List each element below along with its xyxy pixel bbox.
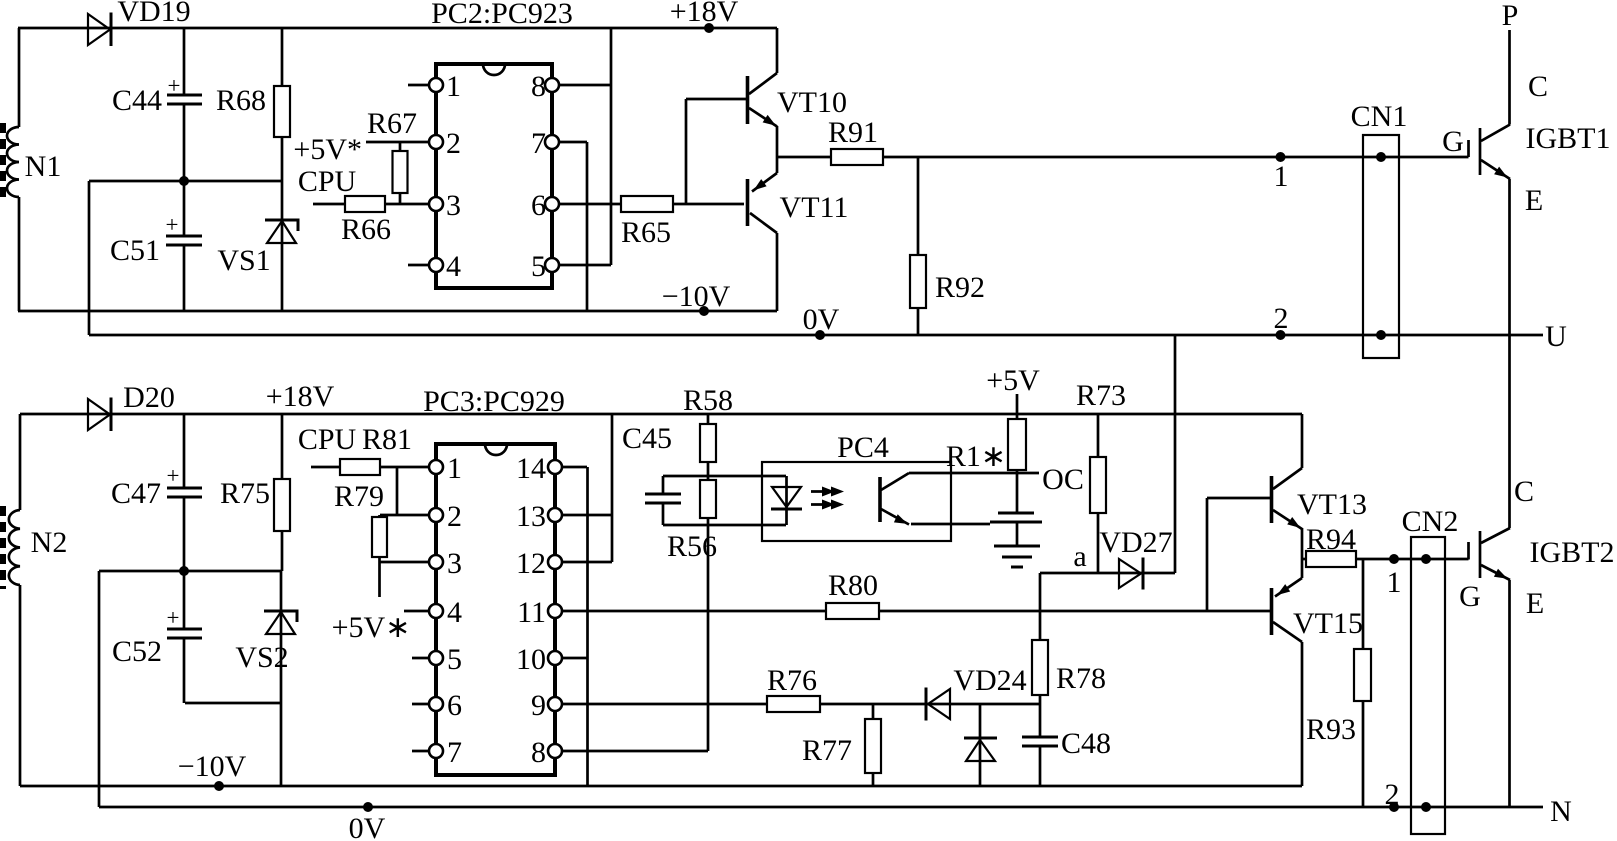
svg-text:13: 13 <box>516 500 546 533</box>
diode VD24 <box>926 664 1040 721</box>
wire VT13 VT15 base tie <box>1207 498 1270 611</box>
zener VS2 <box>235 571 297 786</box>
pin 13 PC3 <box>516 500 612 533</box>
svg-text:2: 2 <box>447 500 462 533</box>
optocoupler PC4 box <box>762 431 951 541</box>
transistor VT15 <box>1272 578 1364 642</box>
resistor R94 <box>1302 523 1469 567</box>
svg-text:−10V: −10V <box>662 280 731 313</box>
resistor R66 <box>298 165 430 246</box>
transformer N2 <box>3 414 67 786</box>
wire node a <box>1040 540 1143 573</box>
wire 0V N rail <box>99 795 1572 841</box>
connector CN1 <box>1351 100 1408 358</box>
pin 8 PC3 <box>531 736 708 769</box>
capacitor C51 <box>110 181 202 311</box>
resistor R76 <box>767 664 926 712</box>
transistor VT10 <box>748 73 848 127</box>
resistor R58 <box>683 384 733 476</box>
svg-text:−10V: −10V <box>178 750 247 783</box>
svg-text:1: 1 <box>1274 160 1289 193</box>
svg-text:R58: R58 <box>683 384 733 417</box>
svg-text:R68: R68 <box>216 84 266 117</box>
svg-text:5: 5 <box>531 250 546 283</box>
svg-text:R93: R93 <box>1306 713 1356 746</box>
svg-text:PC4: PC4 <box>837 431 889 464</box>
IC U-PC3 box PC3:PC929 <box>423 385 565 775</box>
resistor R68 <box>216 28 290 181</box>
node terminal 2 upper <box>1274 302 1289 340</box>
resistor R78 <box>1032 573 1106 737</box>
wire emitter junction <box>776 126 779 173</box>
wire 0V riser lower left <box>98 571 101 807</box>
wire -10V rail lower <box>20 750 1302 791</box>
svg-text:2: 2 <box>1274 302 1289 335</box>
pin 7 PC2 <box>531 127 587 160</box>
svg-text:PC3:PC929: PC3:PC929 <box>423 385 565 418</box>
svg-text:R94: R94 <box>1306 523 1356 556</box>
svg-text:14: 14 <box>516 452 546 485</box>
wire VT15 collector to -10V <box>1301 642 1304 786</box>
pin 3 PC3 <box>429 547 462 580</box>
svg-text:12: 12 <box>516 547 546 580</box>
svg-text:VD27: VD27 <box>1099 526 1172 559</box>
diode VD27 <box>1099 526 1175 590</box>
wire IGBT1 collector P <box>1502 0 1519 125</box>
svg-text:+: + <box>167 463 180 488</box>
svg-text:OC: OC <box>1042 463 1084 496</box>
wire C45/R56 top <box>663 475 786 478</box>
svg-text:R78: R78 <box>1056 662 1106 695</box>
wire emitter junction lower <box>1301 528 1304 578</box>
svg-text:+18V: +18V <box>670 0 739 28</box>
pin 1 PC2 stub <box>408 70 461 103</box>
svg-text:G: G <box>1459 580 1481 613</box>
capacitor C52 <box>112 571 202 703</box>
svg-text:8: 8 <box>531 736 546 769</box>
light arrows <box>811 487 844 510</box>
svg-text:R79: R79 <box>334 480 384 513</box>
pin 11 PC3 <box>517 596 826 629</box>
svg-text:VS2: VS2 <box>235 641 288 674</box>
resistor R56 <box>667 476 717 563</box>
resistor R73 <box>1076 379 1126 573</box>
wire +18V top rail <box>18 27 777 30</box>
svg-text:0V: 0V <box>349 812 386 841</box>
svg-text:CPU: CPU <box>298 165 357 198</box>
svg-text:VT10: VT10 <box>777 86 847 119</box>
wire -10V rail upper <box>18 280 777 316</box>
svg-text:G: G <box>1442 125 1464 158</box>
pin 10 PC3 <box>516 643 588 676</box>
svg-text:VD19: VD19 <box>117 0 190 28</box>
svg-text:R56: R56 <box>667 530 717 563</box>
pin 6 PC3 stub <box>412 689 462 722</box>
pin 12 PC3 <box>516 547 612 580</box>
resistor R1* <box>946 364 1040 513</box>
svg-text:N: N <box>1550 795 1572 828</box>
svg-text:R65: R65 <box>621 216 671 249</box>
svg-text:R76: R76 <box>767 664 817 697</box>
wire 0V rail upper <box>89 303 1567 353</box>
svg-text:R1∗: R1∗ <box>946 440 1006 473</box>
svg-text:D20: D20 <box>123 381 175 414</box>
wire C44/C51 midpoint <box>89 176 282 186</box>
wire Vcc pins 13-12 <box>611 414 614 562</box>
svg-text:C45: C45 <box>622 422 672 455</box>
svg-text:N1: N1 <box>25 150 62 183</box>
svg-text:+: + <box>167 605 180 630</box>
node terminal 1 upper <box>1274 152 1289 193</box>
wire VT13 collector to rail <box>1301 414 1304 468</box>
capacitor PC4 filter <box>990 513 1042 546</box>
svg-text:7: 7 <box>447 736 462 769</box>
svg-text:R73: R73 <box>1076 379 1126 412</box>
transformer N1 <box>3 28 61 311</box>
svg-text:CN2: CN2 <box>1402 505 1459 538</box>
wire R81 to pin2 <box>380 467 430 515</box>
svg-text:R67: R67 <box>367 107 417 140</box>
svg-text:+18V: +18V <box>266 380 335 413</box>
node +18V dot <box>670 0 739 33</box>
wire R56 to pin8 <box>707 525 710 751</box>
pin 6 PC2 <box>531 189 621 222</box>
wire pin7 to -10V <box>586 142 589 311</box>
svg-text:C52: C52 <box>112 635 162 668</box>
wire VT11 collector to -10V <box>776 233 779 311</box>
svg-text:1: 1 <box>446 70 461 103</box>
capacitor C47 <box>111 414 202 571</box>
svg-text:8: 8 <box>531 70 546 103</box>
svg-text:PC2:PC923: PC2:PC923 <box>431 0 573 30</box>
wire VT10 collector to rail <box>776 28 779 73</box>
svg-text:CN1: CN1 <box>1351 100 1408 133</box>
svg-text:+5V∗: +5V∗ <box>332 611 411 644</box>
resistor R81 <box>298 423 430 475</box>
resistor R65 <box>621 196 744 249</box>
svg-text:VT11: VT11 <box>780 191 849 224</box>
transistor IGBT2 <box>1459 475 1614 620</box>
svg-text:R91: R91 <box>828 116 878 149</box>
svg-text:VT13: VT13 <box>1297 488 1367 521</box>
diode freewheel <box>964 704 997 786</box>
diode D20 <box>88 381 175 431</box>
svg-text:C: C <box>1514 475 1534 508</box>
pin 1 PC3 <box>429 452 462 485</box>
pin 14 PC3 <box>516 452 587 485</box>
svg-text:a: a <box>1073 540 1086 573</box>
pin 5 PC2 <box>531 250 611 283</box>
pin 9 PC3 <box>531 689 767 722</box>
transistor VT13 <box>1272 468 1368 529</box>
svg-text:2: 2 <box>446 127 461 160</box>
pin 4 PC3 stub +5V* <box>332 596 462 644</box>
wire C45/R56 bottom <box>663 524 786 527</box>
node terminal 2 lower <box>1385 778 1400 812</box>
svg-text:3: 3 <box>446 189 461 222</box>
svg-text:C48: C48 <box>1061 727 1111 760</box>
svg-text:7: 7 <box>531 127 546 160</box>
svg-text:6: 6 <box>531 189 546 222</box>
connector CN2 <box>1402 505 1459 834</box>
svg-text:3: 3 <box>447 547 462 580</box>
svg-text:IGBT1: IGBT1 <box>1526 122 1611 155</box>
IC U-PC2 box PC2:PC923 <box>431 0 573 288</box>
resistor R79 <box>334 480 430 597</box>
svg-text:C47: C47 <box>111 477 161 510</box>
node terminal 1 lower <box>1387 554 1402 599</box>
wire VD27 to 0V <box>1174 335 1177 573</box>
wire IGBT1 emitter to IGBT2 collector <box>1508 179 1511 528</box>
transistor VT11 <box>748 173 849 233</box>
svg-text:VS1: VS1 <box>217 244 270 277</box>
resistor R80 <box>826 569 1270 619</box>
svg-text:R75: R75 <box>220 477 270 510</box>
svg-text:4: 4 <box>447 596 462 629</box>
svg-text:1: 1 <box>1387 566 1402 599</box>
svg-text:10: 10 <box>516 643 546 676</box>
zener VS1 <box>217 181 298 311</box>
svg-text:5: 5 <box>447 643 462 676</box>
transistor IGBT1 <box>1442 70 1610 217</box>
wire Vcc pins 8-5 <box>610 28 613 265</box>
resistor R67 <box>367 107 417 204</box>
svg-text:+: + <box>166 212 179 237</box>
svg-text:+: + <box>168 73 181 98</box>
svg-text:0V: 0V <box>803 303 840 336</box>
svg-text:CPU: CPU <box>298 423 357 456</box>
pin 3 PC2 <box>429 189 461 222</box>
svg-text:N2: N2 <box>31 526 68 559</box>
svg-text:E: E <box>1525 184 1543 217</box>
svg-text:R66: R66 <box>341 213 391 246</box>
svg-text:E: E <box>1526 587 1544 620</box>
svg-text:11: 11 <box>517 596 546 629</box>
wire C47/C52 midpoint <box>99 566 281 576</box>
svg-text:IGBT2: IGBT2 <box>1530 536 1615 569</box>
wire C52/VS2 bottom <box>185 702 281 705</box>
ground <box>994 546 1040 567</box>
svg-text:VT15: VT15 <box>1293 607 1363 640</box>
pin 8 PC2 <box>531 70 611 103</box>
svg-text:U: U <box>1545 320 1567 353</box>
diode VD19 <box>88 0 191 46</box>
svg-text:R81: R81 <box>362 423 412 456</box>
svg-text:C51: C51 <box>110 234 160 267</box>
wire +18V lower rail <box>20 380 1302 414</box>
svg-text:R80: R80 <box>828 569 878 602</box>
pin 2 PC3 <box>429 500 462 533</box>
resistor R77 <box>802 704 881 786</box>
wire pins 14,10 to -10V <box>586 467 589 786</box>
svg-text:C: C <box>1528 70 1548 103</box>
resistor R75 <box>220 414 290 571</box>
svg-text:+5V: +5V <box>986 364 1040 397</box>
phototransistor PC4 <box>880 473 909 525</box>
resistor R91 <box>777 116 1469 165</box>
resistor R93 <box>1306 559 1371 807</box>
pin 2 PC2 +5V* wire <box>293 127 461 166</box>
wire VT10 base tie <box>686 99 746 204</box>
pin 7 PC3 stub <box>412 736 462 769</box>
wire 0V riser left <box>88 181 91 335</box>
pin 4 PC2 stub <box>408 250 461 283</box>
wire IGBT2 emitter to N <box>1508 580 1511 807</box>
capacitor C45 <box>622 422 681 525</box>
svg-text:1: 1 <box>447 452 462 485</box>
svg-text:+5V*: +5V* <box>293 133 362 166</box>
wire OC collector <box>909 463 1084 496</box>
svg-text:6: 6 <box>447 689 462 722</box>
svg-text:VD24: VD24 <box>953 664 1026 697</box>
capacitor C48 <box>1022 727 1111 786</box>
svg-text:P: P <box>1502 0 1519 32</box>
svg-text:9: 9 <box>531 689 546 722</box>
resistor R92 <box>910 157 985 335</box>
svg-text:R77: R77 <box>802 734 852 767</box>
LED PC4 <box>771 476 802 525</box>
svg-text:R92: R92 <box>935 271 985 304</box>
pin 5 PC3 stub <box>412 643 462 676</box>
svg-text:4: 4 <box>446 250 461 283</box>
wire emitter to cap <box>911 523 990 526</box>
capacitor C44 <box>112 28 202 181</box>
svg-text:C44: C44 <box>112 84 162 117</box>
